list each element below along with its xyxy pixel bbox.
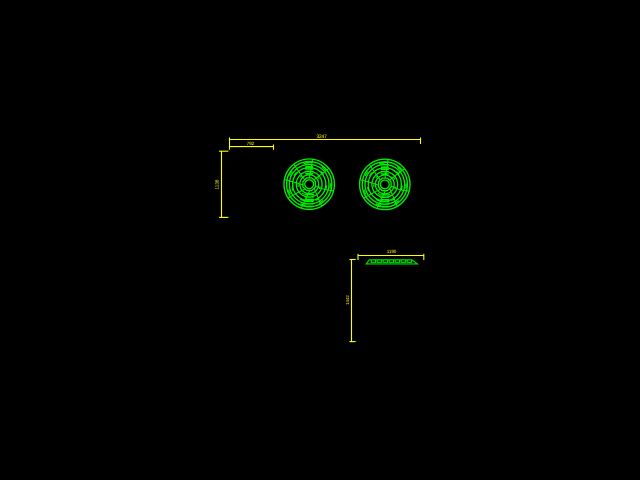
profile outline	[366, 260, 417, 264]
dimension 3247 right tick	[420, 138, 422, 145]
svg-text:792: 792	[247, 141, 255, 146]
vertical dimension 1138 line	[221, 151, 223, 217]
fan 2 (top view right)	[360, 159, 410, 209]
svg-text:1190: 1190	[387, 249, 397, 254]
dimension 3247 left tick	[229, 138, 231, 150]
vertical dimension 1442 bottom tick	[349, 341, 355, 343]
vertical dimension 1442 top tick	[349, 259, 355, 261]
vertical dimension 1138 bottom tick	[219, 216, 228, 218]
vertical dimension 1138 top tick	[219, 150, 228, 152]
svg-text:1138: 1138	[215, 179, 220, 189]
side view profile	[366, 260, 417, 264]
yellow dimension graphics	[219, 138, 424, 342]
dimension 792 right tick	[273, 145, 275, 150]
fan 1 (top view left)	[284, 159, 334, 209]
dimension 1190 right tick	[423, 254, 425, 260]
dimension 792 line	[230, 146, 274, 148]
svg-text:1442: 1442	[345, 295, 350, 305]
dimension 3247 line	[230, 139, 421, 141]
profile rib boxes	[371, 260, 411, 262]
svg-text:3247: 3247	[316, 134, 327, 140]
dimension 1190 line	[358, 255, 424, 257]
vertical dimension 1442 line	[351, 260, 353, 342]
dimension 1190 left tick	[357, 254, 359, 260]
